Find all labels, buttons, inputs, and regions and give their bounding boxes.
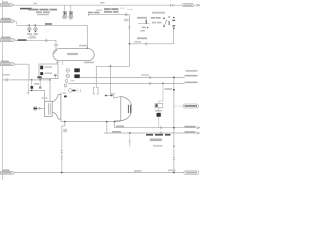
pin 2 stub xyxy=(57,61,59,65)
connector circles CC1 xyxy=(64,69,69,87)
node J1 xyxy=(129,43,131,45)
inline connector on W3 xyxy=(146,42,147,45)
node J13 xyxy=(173,89,175,91)
pin label text xyxy=(84,62,94,64)
power arrow tag A3 xyxy=(1,37,16,42)
wire W6 from A4 xyxy=(15,63,29,65)
lamp B2 xyxy=(34,25,37,32)
splice block S2 xyxy=(74,68,80,72)
left sheet border xyxy=(2,0,4,180)
node J4 xyxy=(86,48,88,50)
node J14 xyxy=(61,172,63,174)
wire V1 vertical xyxy=(129,15,131,67)
wire W4 xyxy=(17,24,88,26)
node J2 xyxy=(28,24,30,26)
wire WG ground bus xyxy=(15,172,184,174)
connector drop C5 xyxy=(31,80,33,86)
dark wire label row xyxy=(146,134,153,136)
horn 2 xyxy=(114,97,132,121)
wire V7 horn low drop xyxy=(64,122,66,126)
connector drop C6 xyxy=(39,80,41,86)
node B+ label text xyxy=(3,1,8,3)
ground drop G2 xyxy=(27,80,29,92)
cluster: ground screw G3 xyxy=(64,84,81,97)
inline connector on V7 xyxy=(61,151,63,153)
pin stub dark mark xyxy=(54,75,56,77)
node J15 xyxy=(173,172,175,174)
power arrow tag A2 xyxy=(1,18,16,23)
inline connector on W9 xyxy=(6,78,7,81)
node J8 xyxy=(110,65,112,67)
dark label S4 xyxy=(37,76,41,78)
node J6 xyxy=(39,79,41,81)
bracket component U3 xyxy=(93,88,98,94)
connector box C8 xyxy=(155,103,163,107)
wire W9 left low xyxy=(3,79,51,81)
wire V4 xyxy=(28,64,30,80)
off-page arrow right W1 xyxy=(197,4,200,6)
node J10 xyxy=(106,121,108,123)
wire W5 drop to switch xyxy=(55,40,57,48)
wire W13 horn bottoms xyxy=(60,119,62,121)
inline connector C2 xyxy=(15,21,18,25)
horn switch S1 xyxy=(151,12,175,29)
pin 3 stub xyxy=(61,61,63,65)
wire W12 horn2 top link xyxy=(105,95,114,97)
wire V2 vertical to switch xyxy=(173,29,175,44)
right text labels top xyxy=(186,70,198,72)
horn1 feed connector C7 xyxy=(33,107,45,111)
node J12 xyxy=(173,77,175,79)
inline connector on W5 xyxy=(46,39,47,42)
lamp B1 xyxy=(28,25,31,32)
node J3 xyxy=(34,24,36,26)
wire V3 xyxy=(86,25,88,48)
horn 1 speaker xyxy=(45,94,61,119)
headlamp switch U2 pill xyxy=(53,49,94,61)
vertical bus VR xyxy=(173,77,175,172)
inline connector on W1 xyxy=(171,4,173,7)
wire W1 hot feed xyxy=(14,4,197,6)
wire V6 to horn2 xyxy=(109,66,111,95)
splice block S5 xyxy=(157,113,161,117)
power arrow tag A4 xyxy=(1,61,16,66)
splice block S3 xyxy=(74,74,80,78)
inline connector on VR xyxy=(173,146,174,147)
ground pill label GP1 xyxy=(174,105,183,107)
relay module M1 xyxy=(39,64,58,79)
node J7 xyxy=(49,79,51,81)
horn1 top pin xyxy=(60,93,62,95)
wire W11 descend xyxy=(95,66,97,87)
wire WB xyxy=(106,122,108,133)
node J5 xyxy=(31,79,33,81)
ground arrow tag A5 xyxy=(1,169,16,174)
fuse F1 xyxy=(62,5,67,19)
note box N1 xyxy=(150,139,162,142)
W1 circuit label dark xyxy=(20,8,32,10)
wire W3 xyxy=(130,43,174,45)
horn2 driver bars xyxy=(128,105,129,113)
fuse F2 xyxy=(68,5,73,20)
component box on W1 xyxy=(183,4,193,7)
text block TB1 xyxy=(104,8,111,10)
wire W10 to horn 1 xyxy=(28,89,44,91)
wire W8 row xyxy=(68,82,185,84)
wire WA xyxy=(114,122,116,128)
ground drop G4 xyxy=(129,132,131,134)
relay K1 cluster xyxy=(137,17,150,32)
power feed arrow tag A1 xyxy=(1,4,15,7)
node J11 xyxy=(114,121,116,123)
node J16 xyxy=(173,127,175,129)
node J9 xyxy=(64,121,66,123)
wire W2 xyxy=(88,10,130,22)
wire W7 row xyxy=(80,76,185,78)
inline connector on V1 xyxy=(128,26,130,28)
right drop from W8: connector stack xyxy=(162,83,164,85)
wire V5 module to horn1 xyxy=(49,79,51,102)
title text block xyxy=(19,7,21,9)
ground G101 pill xyxy=(184,171,199,175)
wire W5 xyxy=(16,39,57,41)
